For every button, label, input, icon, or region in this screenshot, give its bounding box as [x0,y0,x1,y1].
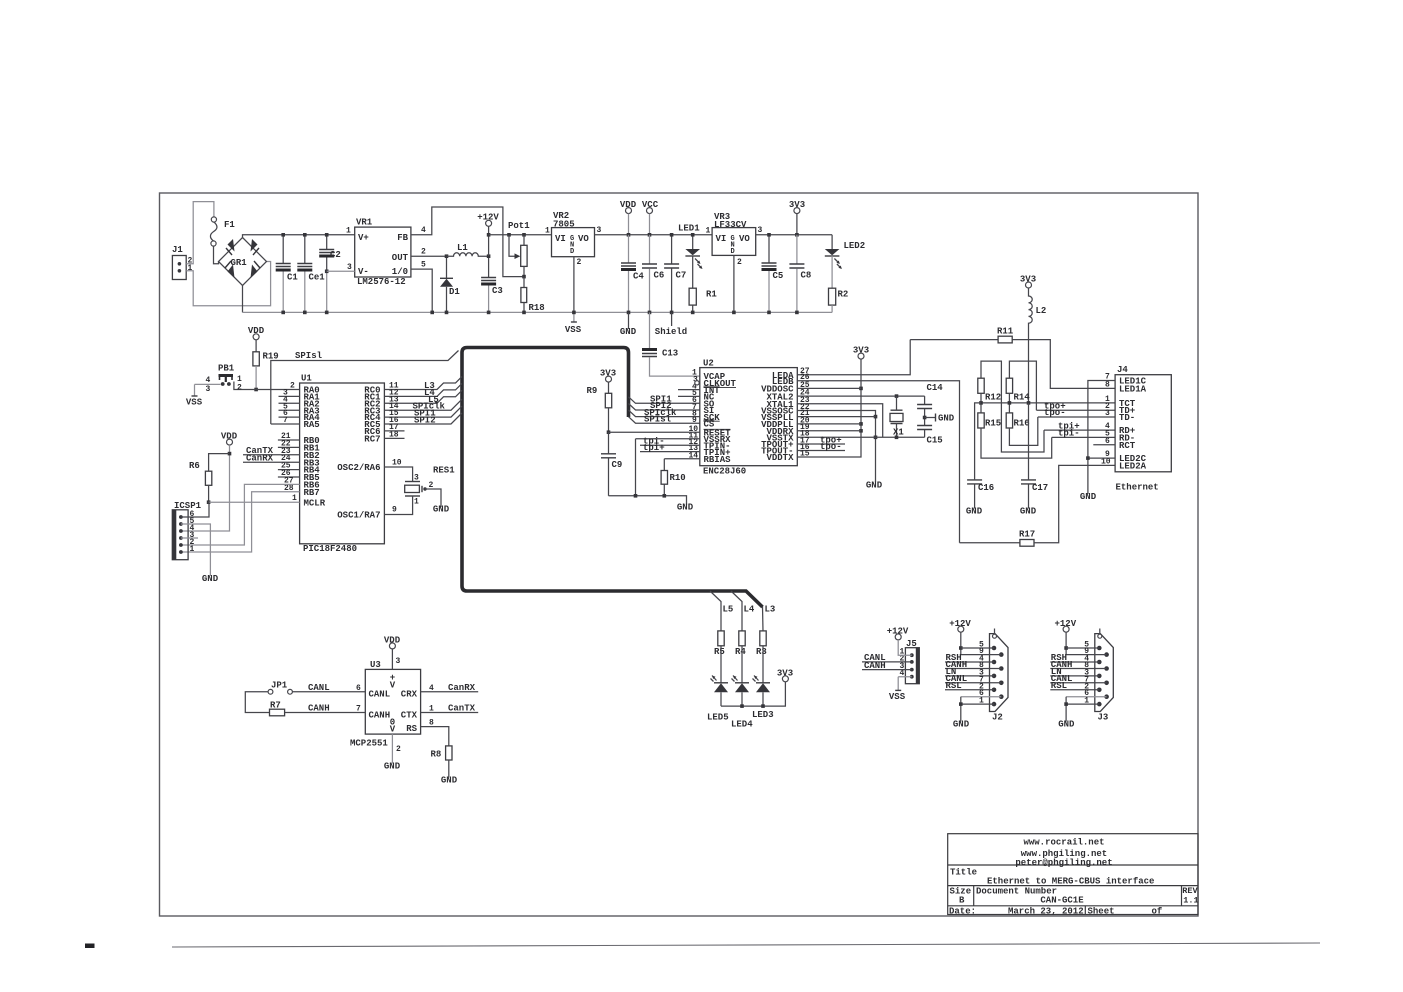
svg-text:U3: U3 [370,660,381,670]
svg-text:4: 4 [421,226,426,235]
node VDD [626,208,632,214]
wire XTAL1 [797,404,882,438]
svg-text:1: 1 [429,705,434,714]
wire VR3 GND pin2 to rail [733,255,735,312]
svg-text:+12V: +12V [887,627,909,637]
wire GR1 bottom to ground rail [242,286,244,313]
transceiver U3 MCP2551 [365,669,420,734]
wire ICSP pin5 to GND [181,524,211,576]
svg-text:R9: R9 [587,386,598,396]
svg-text:GND: GND [866,481,883,491]
wire RESET [609,431,700,433]
resistor R1 [692,256,694,288]
resistor R7 and CANH wire [245,692,269,713]
svg-text:OSC1/RA7: OSC1/RA7 [337,511,380,521]
svg-text:C15: C15 [927,436,943,446]
capacitor C14 [924,396,926,404]
wire F1 to GR1 left corner [214,246,219,264]
svg-text:L4: L4 [744,605,755,615]
svg-text:CANH: CANH [864,661,886,671]
wire U3 pin2 to GND [391,734,393,763]
svg-text:1: 1 [188,264,193,273]
wire VR2 GND pin2 to rail and VSS [573,257,575,313]
svg-text:LED4: LED4 [731,720,753,730]
svg-text:+12V: +12V [949,619,971,629]
capacitor C2 [326,235,328,249]
svg-text:Sheet: Sheet [1088,907,1115,917]
node VCC [647,208,653,214]
+5V rail VR2 to VR3 [595,234,713,236]
svg-text:L2: L2 [1036,306,1047,316]
svg-text:CANH: CANH [369,710,391,720]
svg-text:D1: D1 [449,287,460,297]
svg-text:LED5: LED5 [707,713,729,723]
wire J1 pin1 to GR1 right corner [186,262,270,306]
crystal X1 [891,410,903,423]
net CanRX on RB3 [243,461,300,463]
wire JP1 to CANL pin6 [292,691,365,693]
svg-text:ENC28J60: ENC28J60 [703,467,746,477]
svg-text:March 23, 2012: March 23, 2012 [1008,907,1084,917]
resistor R17 [960,542,1020,544]
capacitor C9 [608,432,610,453]
capacitor C5 [768,235,770,263]
svg-text:C2: C2 [330,250,341,260]
wire R15 bottom to tpi- [981,428,1052,458]
node +12V [486,220,492,226]
svg-text:3V3: 3V3 [777,669,793,679]
svg-text:+12V: +12V [477,213,499,223]
node 3V3 above L2 [1026,282,1032,288]
resistor R5 [718,631,724,646]
svg-text:LF33CV: LF33CV [714,220,747,230]
LED LED1 [692,235,694,249]
svg-text:tpo-: tpo- [1044,408,1066,418]
svg-text:GND: GND [953,720,970,730]
svg-text:PIC18F2480: PIC18F2480 [303,544,357,554]
resistor R10 [661,471,667,485]
svg-text:3V3: 3V3 [600,369,616,379]
svg-text:C9: C9 [612,460,623,470]
svg-text:C3: C3 [492,286,503,296]
wire J4 RCT stub [1093,444,1115,446]
svg-text:MCLR: MCLR [304,498,326,508]
svg-text:OUT: OUT [392,253,409,263]
svg-text:R15: R15 [985,419,1001,429]
svg-text:RC7: RC7 [364,435,380,445]
svg-text:VI: VI [716,234,727,244]
svg-text:RBIAS: RBIAS [704,455,732,465]
svg-text:VSS: VSS [186,398,203,408]
svg-text:VR1: VR1 [356,218,373,228]
svg-text:F1: F1 [224,220,235,230]
ethernet controller U2 ENC28J60 [700,368,798,466]
LED LED2 [831,235,833,249]
+12V rail to VR2 [489,234,552,236]
resistor R8 [446,746,452,760]
svg-text:GND: GND [202,574,219,584]
connector J3 d-sub [1050,619,1113,730]
svg-text:CANL: CANL [308,683,330,693]
capacitor C4 [628,235,630,263]
svg-text:V: V [390,681,396,691]
svg-text:VSS: VSS [565,325,582,335]
svg-text:tpi+: tpi+ [643,443,665,453]
capacitor C15 [917,426,932,430]
bus entries from PIC RC3-RC5 [384,399,462,410]
net tpi+ stub [640,451,700,453]
svg-text:VCC: VCC [642,200,659,210]
svg-text:3: 3 [414,474,419,483]
svg-text:Ce1: Ce1 [309,273,326,283]
resistor R2 [831,256,833,288]
svg-text:LED3: LED3 [752,710,774,720]
bus exit entries to U2 pins 6-9 [629,397,700,404]
U1 RB stubs [278,440,300,477]
resistor R12 [981,361,1044,452]
wire J5 pin4 to VSS [898,677,912,691]
connector J4 ethernet jack [1115,375,1171,472]
U1 RC6 RC7 stubs [384,431,404,439]
node 3V3 above R9 [606,376,612,382]
wire VSSTX / crystal ground line [797,436,924,438]
wire XTAL2 to C14 [797,395,924,397]
svg-text:2: 2 [237,384,242,393]
svg-text:R5: R5 [714,647,725,657]
svg-text:1: 1 [346,227,351,236]
net tpo+ stub [797,443,845,445]
svg-text:GND: GND [441,776,458,786]
svg-text:8: 8 [429,719,434,728]
wire ICSP pin6 to MCLR [181,502,209,517]
svg-text:CTX: CTX [401,710,418,720]
svg-text:tpo-: tpo- [820,442,842,452]
svg-text:CanTX: CanTX [448,704,476,714]
svg-text:3: 3 [597,226,602,235]
svg-text:3: 3 [396,657,401,666]
resonator RES1 [384,467,412,482]
bus thick wire loop [462,348,763,608]
node 3V3 at LEDs [782,676,788,682]
wire GR1 top to +V rail [243,235,355,238]
svg-text:8: 8 [1105,380,1110,389]
LED common rail to 3V3 [721,682,785,706]
node 3V3 above U2 right [858,353,864,359]
svg-text:R18: R18 [529,303,545,313]
pin name underlines/overlines [704,386,737,429]
regulator VR2 7805 [552,228,595,257]
LED LED3 [762,646,764,683]
svg-text:CANL: CANL [369,690,391,700]
wire RB7 to ICSP pin1 [181,492,300,552]
svg-text:VDD: VDD [221,432,238,442]
wire VR1 V- to C2 [327,270,355,272]
connector ICSP1 [172,510,188,560]
node +12V above J5 [895,634,901,640]
svg-text:C4: C4 [633,272,644,282]
net tpi- wire to J4 pin5 [1052,436,1115,438]
svg-text:L3: L3 [765,605,776,615]
svg-text:RCT: RCT [1119,441,1136,451]
wire SPIsl from RA5 to bus [271,351,459,425]
svg-text:GR1: GR1 [231,258,248,268]
GND stub right of C14/C15 junction [925,417,936,419]
page border frame [160,193,1199,916]
svg-text:V-: V- [358,267,369,277]
svg-text:C14: C14 [927,383,944,393]
net CANL to J5 pin2 [862,661,912,663]
svg-text:C8: C8 [801,271,812,281]
capacitor Ce1 [304,235,306,263]
svg-text:VDD: VDD [248,326,265,336]
wire VDDRX [797,430,861,432]
svg-text:4: 4 [429,684,434,693]
connector J5 [905,648,919,684]
net tpo- stub [797,450,845,452]
svg-text:R10: R10 [670,473,686,483]
svg-text:R4: R4 [735,647,746,657]
svg-text:VI: VI [555,234,566,244]
svg-text:SPI2: SPI2 [414,416,436,426]
net tpi+ wire to J4 pin4 [1044,429,1115,431]
svg-text:Ethernet: Ethernet [1116,483,1159,493]
svg-text:R1: R1 [706,290,717,300]
svg-text:LED1A: LED1A [1119,384,1147,394]
svg-text:Shield: Shield [655,327,687,337]
svg-text:tpi-: tpi- [1058,429,1080,439]
resistor R6 [209,454,230,472]
svg-text:CanRX: CanRX [448,683,476,693]
svg-text:V: V [390,725,396,735]
resistor R4 [739,631,745,646]
capacitor C13 [649,312,651,348]
svg-text:1/0: 1/0 [392,267,408,277]
wire VSSOSC to VSS column [797,411,875,483]
wire VSSRX [636,439,700,496]
svg-text:B: B [959,896,965,906]
svg-text:CanRX: CanRX [246,453,274,463]
svg-text:R6: R6 [189,461,200,471]
svg-text:OSC2/RA6: OSC2/RA6 [337,463,380,473]
resistor R9 [605,393,611,408]
capacitor C1 [282,235,284,263]
svg-text:VDD: VDD [620,200,637,210]
svg-text:9: 9 [392,506,397,515]
svg-text:R7: R7 [270,701,281,711]
svg-text:FB: FB [397,233,408,243]
svg-text:C17: C17 [1032,483,1048,493]
net tpo- wire to J4 pin3 [1038,416,1115,418]
wire RS to R8 [421,727,449,746]
svg-text:R11: R11 [997,327,1014,337]
wire MCLR [209,501,300,503]
wire J4 LED1C/LED2C to GND [1088,381,1115,495]
node VDD above R6 [227,439,233,445]
svg-text:J1: J1 [172,245,183,255]
svg-text:3: 3 [347,263,352,272]
svg-text:3: 3 [758,226,763,235]
svg-text:VO: VO [578,234,589,244]
svg-text:R14: R14 [1014,393,1031,403]
svg-text:D: D [570,248,574,256]
bridge rectifier GR1 [219,238,267,286]
capacitor C3 [488,256,490,277]
svg-text:GND: GND [1020,507,1037,517]
capacitor C7 [671,235,673,264]
wire RBIAS to R10 [664,459,700,471]
resistor R16 [1006,413,1012,428]
node VDD above U3 [389,643,395,649]
ground stub under C4 [628,312,630,329]
wire CTX to CanTX [421,712,479,714]
svg-text:1: 1 [414,498,419,507]
svg-text:V+: V+ [358,233,369,243]
svg-text:J2: J2 [992,713,1003,723]
capacitor C16 [975,403,981,480]
svg-text:LM2576-12: LM2576-12 [357,277,406,287]
LED LED5 [720,646,722,683]
svg-text:GND: GND [384,762,401,772]
svg-text:LED2A: LED2A [1119,461,1147,471]
svg-text:ICSP1: ICSP1 [174,501,202,511]
svg-text:2: 2 [396,745,401,754]
svg-text:4: 4 [206,376,211,385]
ICSP pin3 stub [181,537,198,539]
scan artifact dash [85,944,95,949]
svg-text:2: 2 [290,382,295,391]
svg-text:LED1: LED1 [678,224,700,234]
svg-text:R16: R16 [1014,419,1030,429]
resistor R19 [253,352,259,366]
wire VR1 FB loop to pot [411,207,524,277]
svg-text:10: 10 [1101,457,1111,466]
svg-text:CANH: CANH [308,704,330,714]
regulator VR1 LM2576-12 [355,227,411,277]
svg-text:U2: U2 [703,359,714,369]
svg-text:1.1: 1.1 [1183,896,1198,906]
wire VSSPLL [797,416,875,418]
svg-text:1: 1 [545,227,550,236]
svg-text:J3: J3 [1098,713,1109,723]
node 3V3 top [794,208,800,214]
svg-text:SPIsl: SPIsl [644,414,672,424]
svg-text:RS: RS [406,724,417,734]
U2 pin1 number [689,369,699,461]
wire CRX to CanRX [421,691,479,693]
resistor R14 [1009,361,1036,410]
svg-text:www.rocrail.net: www.rocrail.net [1023,838,1104,848]
svg-text:5: 5 [421,261,426,270]
svg-text:JP1: JP1 [271,681,288,691]
resistor R15 [978,413,984,428]
svg-text:7805: 7805 [553,220,575,230]
diode D1 [446,256,448,278]
svg-text:3: 3 [206,385,211,394]
svg-text:1: 1 [979,697,984,706]
svg-text:3V3: 3V3 [1020,275,1036,285]
svg-text:C7: C7 [676,271,687,281]
svg-text:Date:: Date: [949,907,976,917]
svg-text:Ethernet to MERG-CBUS interfac: Ethernet to MERG-CBUS interface [987,877,1154,887]
svg-text:J4: J4 [1117,365,1128,375]
inductor L2 [1029,288,1033,403]
svg-text:GND: GND [620,327,637,337]
svg-text:U1: U1 [301,374,312,384]
svg-text:VO: VO [739,234,750,244]
svg-text:C16: C16 [978,483,994,493]
wire VDDPLL [797,423,861,425]
net CanTX on RB2 [243,454,300,456]
svg-text:L1: L1 [457,243,468,253]
svg-text:REV: REV [1182,886,1198,896]
ground rail (bottom power rail) [243,311,833,313]
wire LEDA up to R11 [797,340,910,375]
connector J1 [172,256,186,280]
svg-text:J5: J5 [906,639,917,649]
svg-text:RA5: RA5 [304,420,320,430]
svg-text:7: 7 [356,705,361,714]
svg-text:CAN-GC1E: CAN-GC1E [1040,896,1084,906]
svg-text:VSS: VSS [889,692,906,702]
LED LED4 [741,646,743,683]
net tpi- stub [640,444,700,446]
svg-text:GND: GND [433,505,450,515]
svg-text:L5: L5 [723,605,734,615]
regulator VR3 LF33CV [712,228,756,256]
svg-text:9: 9 [692,416,697,425]
svg-text:2: 2 [577,258,582,267]
svg-text:C13: C13 [662,349,678,359]
svg-text:C6: C6 [654,271,665,281]
svg-text:3V3: 3V3 [853,346,869,356]
resistor R3 [760,631,766,646]
CLKOUT bubble and stubs [695,381,699,385]
svg-text:R2: R2 [838,290,849,300]
bus entries from PIC RC0-RC2 [384,377,462,390]
capacitor C17 [1028,403,1030,480]
jumper JP1 [268,689,273,694]
svg-text:C5: C5 [773,271,784,281]
inductor L1 [447,253,489,256]
svg-text:Pot1: Pot1 [508,221,530,231]
VSS symbol at PB1 [194,384,196,396]
svg-text:C1: C1 [287,273,298,283]
svg-text:1: 1 [706,227,711,236]
net CANH to J5 pin3 [862,669,912,671]
wire RB6 to ICSP pin2 [181,484,300,545]
svg-text:Title: Title [950,868,977,878]
svg-text:TD-: TD- [1119,413,1135,423]
wire LEDB to R17 drop [797,381,959,543]
svg-text:2: 2 [421,248,426,257]
svg-text:CRX: CRX [401,690,418,700]
svg-text:15: 15 [800,449,810,458]
svg-text:SPIsl: SPIsl [295,351,323,361]
capacitor C8 [796,235,798,264]
svg-text:RES1: RES1 [433,466,455,476]
wire L3 [762,607,765,631]
wire VDDOSC [797,387,861,389]
svg-text:VDD: VDD [384,636,401,646]
svg-text:10: 10 [392,459,402,468]
U2 ground rail [609,496,687,505]
title block frame [948,834,1198,915]
potentiometer Pot1 [521,245,527,266]
node VDD above R19 [253,334,259,340]
svg-text:7: 7 [283,416,288,425]
wire VR1 OUT to D1 [411,255,447,257]
svg-text:6: 6 [356,684,361,693]
